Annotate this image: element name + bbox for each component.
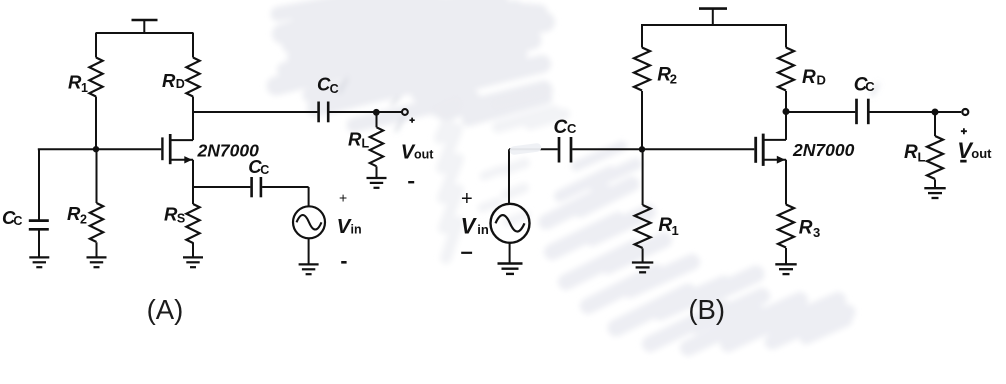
svg-text:3: 3 <box>813 225 820 240</box>
node: output node right (B) <box>932 109 939 116</box>
resistor R2 (B) <box>634 25 650 149</box>
node: gate node (B) <box>639 146 645 152</box>
label minus at output (A) <box>408 181 414 183</box>
svg-text:2: 2 <box>670 72 677 87</box>
label plus at output (A) <box>410 118 415 123</box>
source Vin generator (A) <box>293 206 325 238</box>
svg-text:L: L <box>918 149 926 164</box>
wire: source tap to coupling cap (A) <box>193 186 250 188</box>
svg-text:+: + <box>339 189 347 205</box>
svg-text:R: R <box>67 203 81 224</box>
wire: gate wire (A) <box>38 148 162 150</box>
svg-text:in: in <box>477 222 489 237</box>
capacitor CC input (B) <box>559 137 571 163</box>
svg-text:2: 2 <box>80 213 87 227</box>
SMUDGES <box>0 0 1 1</box>
resistor R3 (B) <box>778 160 794 265</box>
wire: Vin to ground (A) <box>308 238 310 264</box>
svg-text:C: C <box>865 79 875 94</box>
capacitor CC output (A) <box>319 102 329 123</box>
capacitor CC output (B) <box>857 99 869 125</box>
svg-text:C: C <box>554 117 568 138</box>
svg-text:R: R <box>164 203 178 224</box>
wire: left drop to bypass cap <box>38 149 40 219</box>
svg-text:1: 1 <box>81 81 88 95</box>
terminal: output circle (A) <box>402 109 408 115</box>
CIRCUIT-A <box>29 20 408 274</box>
resistor RS <box>186 204 199 257</box>
svg-text:(B): (B) <box>688 294 725 325</box>
resistor R1 <box>89 33 102 149</box>
ground: below R2 <box>87 257 107 267</box>
transistor Q1 2N7000 (A) <box>162 134 193 164</box>
svg-text:S: S <box>177 211 185 225</box>
svg-text:R: R <box>658 215 672 236</box>
node: output node (A) <box>373 109 380 116</box>
wire: cap to Vin corner (A) <box>262 187 309 207</box>
source Vin generator (B) <box>491 204 530 243</box>
wire: VDD rail (A) <box>96 32 194 34</box>
node: drain/output node (B) <box>783 108 790 115</box>
wire: VDD rail (B) <box>641 24 787 26</box>
wire: Vin to ground (B) <box>509 243 511 264</box>
label plus at output (B) <box>961 128 967 134</box>
VDD supply symbol (B) <box>699 9 727 25</box>
ground: below RL (A) <box>367 178 387 188</box>
ground: below bypass cap (A) <box>29 257 49 267</box>
transistor Q2 2N7000 (B) <box>756 134 786 166</box>
svg-text:R: R <box>348 128 362 149</box>
svg-text:C: C <box>330 82 339 96</box>
VDD supply symbol (A) <box>132 20 158 33</box>
wire: bypass cap to ground <box>38 229 40 257</box>
svg-text:C: C <box>13 214 22 228</box>
wire: output wire right of cap (A) <box>329 111 401 113</box>
svg-text:C: C <box>567 121 577 136</box>
resistor R1 (B) <box>635 149 651 262</box>
node: gate node (A) <box>93 146 99 152</box>
svg-text:R: R <box>162 70 176 91</box>
svg-text:out: out <box>414 148 434 162</box>
svg-text:V: V <box>461 214 478 239</box>
resistor RL (B) <box>927 112 943 188</box>
smudge erasure over B input wire <box>514 148 537 151</box>
ground: below RS <box>183 257 203 267</box>
resistor RD (B) <box>778 25 794 140</box>
svg-text:D: D <box>176 77 185 91</box>
CIRCUIT-B <box>491 9 969 274</box>
label minus under Vout (B) <box>960 160 966 163</box>
ground: below Vin (B) <box>498 264 523 274</box>
ground: below R3 (B) <box>775 264 796 274</box>
resistor R2 <box>90 149 103 257</box>
wire: output wire left of cap (B) <box>786 111 855 113</box>
svg-text:2N7000: 2N7000 <box>792 140 855 160</box>
svg-text:R: R <box>799 217 813 238</box>
capacitor CC gate bypass (A) <box>29 221 49 230</box>
svg-text:out: out <box>971 146 992 161</box>
wire: source lead down to RS tee <box>192 160 194 204</box>
svg-text:(A): (A) <box>147 294 184 325</box>
wire: output wire left of cap (A) <box>193 111 317 113</box>
svg-text:in: in <box>351 222 362 236</box>
capacitor CC source coupling (A) <box>252 177 261 197</box>
svg-text:D: D <box>817 73 826 88</box>
resistor RD (A) <box>186 33 199 140</box>
resistor RL (A) <box>370 112 383 178</box>
ground: below RL (B) <box>924 188 945 198</box>
svg-text:R: R <box>68 72 82 93</box>
svg-text:C: C <box>260 163 269 177</box>
svg-text:R: R <box>802 67 816 88</box>
label minus at Vin (A) <box>341 261 346 264</box>
svg-text:1: 1 <box>672 223 679 238</box>
label minus at Vin (B) <box>461 252 472 254</box>
terminal: output circle (B) <box>962 109 968 115</box>
svg-text:R: R <box>904 142 918 163</box>
wire: Vin corner to cap (B) <box>509 149 558 204</box>
wire: output wire right of cap (B) <box>870 111 962 113</box>
ground: below R1 (B) <box>632 263 653 273</box>
svg-text:+: + <box>461 188 473 210</box>
svg-text:L: L <box>362 137 370 151</box>
ground: below Vin (A) <box>299 264 319 274</box>
wire: gate wire cap to transistor (B) <box>572 148 754 150</box>
